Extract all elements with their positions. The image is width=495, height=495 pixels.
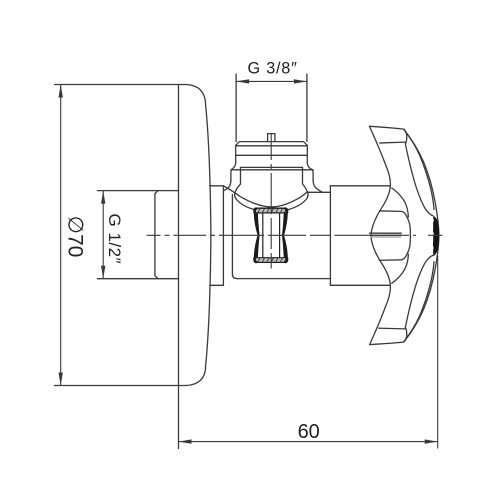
svg-text:∅70: ∅70 — [64, 216, 87, 258]
handle cap edge-on dark band — [433, 216, 439, 256]
vertical stem centerline — [270, 133, 272, 269]
collar right edge — [222, 186, 224, 285]
bottom wing inner edge — [392, 254, 409, 283]
flange face (rounded corners + shallow convex arc) — [186, 85, 211, 386]
outlet pipe right line (G3/8 extension) — [306, 74, 308, 142]
collar bottom edge — [210, 284, 224, 286]
skirt flare left — [231, 163, 236, 182]
flange left edge + 60-dim extension — [178, 85, 180, 449]
skirt inner seam — [241, 166, 303, 168]
bonnet cap top with chamfers — [236, 142, 308, 146]
flange bottom edge + Ø70 bottom extension — [55, 385, 187, 387]
bottom wing trailing line outer — [404, 262, 434, 342]
knurled nut outline (hourglass sides) — [254, 208, 287, 262]
G1/2 nipple left end face with chamfers — [155, 191, 158, 279]
svg-text:G 1/2″: G 1/2″ — [105, 213, 124, 264]
dimension: 60 — [179, 256, 438, 449]
stem nub — [268, 134, 275, 142]
neck top line — [307, 191, 331, 193]
dimension: G 3/8" — [236, 80, 307, 82]
top wing trailing line outer — [404, 129, 434, 209]
bottom wing tip band — [379, 327, 406, 330]
outlet pipe left line (G3/8 extension) — [235, 74, 237, 142]
flange top edge + Ø70 top extension — [55, 84, 187, 86]
bowl inner curve — [235, 184, 308, 212]
bottom wing tip corner curl — [404, 327, 407, 342]
neck bottom line — [237, 278, 330, 280]
centerlines — [147, 133, 443, 269]
cap right side — [306, 145, 308, 162]
knurled nut band hatch ticks — [258, 209, 286, 262]
cap mid seam — [236, 154, 308, 156]
collar top edge — [210, 185, 224, 187]
hub boss outline — [407, 217, 411, 254]
hub cylinder bottom edge — [380, 254, 407, 260]
horizontal centerline — [147, 234, 443, 236]
top wing tip band — [380, 141, 406, 144]
top wing top edge — [369, 126, 403, 129]
top wing tip corner curl — [404, 129, 407, 144]
knurled nut white mask — [254, 208, 287, 262]
cap seam under chamfer — [236, 145, 308, 147]
skirt outer fillet left — [224, 181, 231, 190]
G1/2 nipple bottom edge + extension — [98, 278, 179, 280]
bottom wing trailing line inner — [405, 255, 433, 327]
hub rect top edge — [330, 185, 389, 187]
body left vertical edge — [232, 195, 237, 279]
knurled nut top band hatch fill — [255, 209, 287, 213]
knurl corner darkening — [255, 209, 287, 262]
skirt inner right vertical — [302, 167, 304, 184]
G1/2 nipple top edge + extension — [98, 190, 179, 192]
hub rect left edge — [329, 186, 331, 285]
hub rect bottom edge — [330, 284, 389, 286]
dimension: G 1/2" — [102, 191, 104, 279]
knurled nut inner lines — [255, 213, 286, 258]
knurl pinch wedges — [254, 213, 287, 258]
svg-text:G 3/8″: G 3/8″ — [248, 59, 298, 77]
bowl outer curve — [224, 186, 307, 207]
skirt flare right — [307, 163, 313, 182]
handle outer arc — [404, 130, 439, 341]
dimension: Ø70 — [60, 85, 62, 386]
hub seam lines — [370, 232, 402, 234]
svg-text:60: 60 — [298, 421, 320, 443]
bottom wing bottom edge — [370, 342, 404, 345]
hub seam shading — [370, 236, 401, 237]
top wing inner edge — [392, 188, 409, 217]
top wing trailing line inner — [405, 144, 433, 216]
skirt outer seam — [231, 169, 313, 171]
handle left silhouette — [369, 126, 390, 344]
skirt outer fillet right — [313, 181, 322, 192]
cap left side — [235, 145, 237, 162]
skirt inner left vertical — [240, 167, 242, 184]
hub cylinder top edge — [380, 211, 407, 217]
knurled nut bottom band hatch fill — [255, 258, 287, 262]
